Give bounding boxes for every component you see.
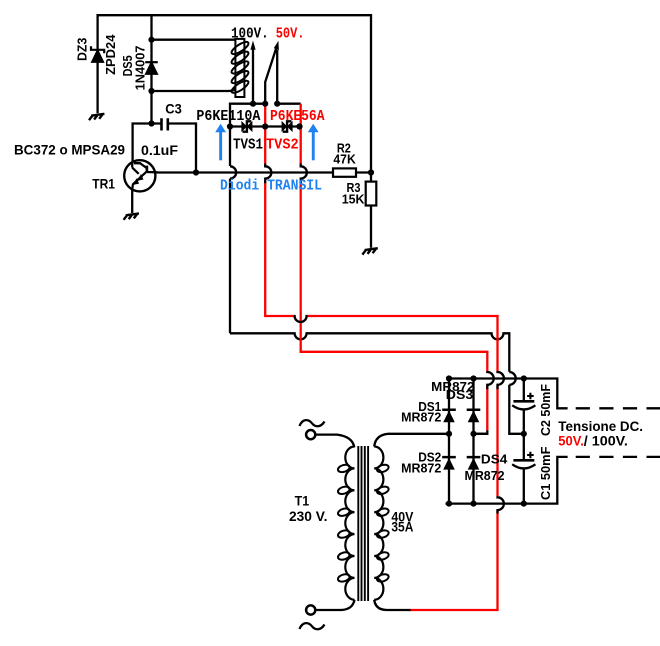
diode DS5 symbol [145, 62, 158, 74]
wire relay coil top lead [152, 39, 236, 41]
wire output minus dashed [576, 456, 660, 458]
wire hop black on red y316 at x300 [294, 316, 308, 322]
wire DS5 vertical [150, 15, 152, 123]
junction DS5 top / coil lead [148, 37, 154, 43]
junction DS3-DS4 mid node [470, 431, 476, 437]
svg-text:DS3: DS3 [446, 387, 473, 402]
blue arrow left [215, 124, 226, 161]
svg-text:MR872: MR872 [465, 468, 505, 483]
svg-text:ZPD24: ZPD24 [103, 34, 118, 75]
svg-text:TVS2: TVS2 [266, 136, 299, 153]
wire red from relay arm down [265, 104, 294, 316]
svg-text:MR872: MR872 [401, 461, 441, 476]
wire relay contact segment B [277, 103, 301, 105]
TVS2 symbol [282, 121, 293, 132]
wire secondary top lead [374, 434, 388, 447]
resistor R3 [366, 182, 377, 206]
wire red from 50V contact down [301, 104, 488, 431]
svg-text:47K: 47K [333, 151, 356, 166]
wire hop black x487 over rail378 [487, 371, 493, 389]
junction DS5 / C3 wire [148, 120, 154, 126]
wire TVS horizontal [230, 125, 301, 127]
core lines [358, 446, 368, 601]
wire relay coil bottom lead [152, 89, 236, 91]
junction C1-C2 mid node [521, 431, 527, 437]
svg-text:TVS1: TVS1 [233, 136, 263, 153]
junction R2 / R3 node [368, 169, 374, 175]
wire top rail with DZ3 branch and right branch to R2/R3 [98, 15, 371, 181]
svg-text:DS4: DS4 [481, 452, 508, 467]
wire black horizontal mid (to bridge cap mid node) [230, 333, 524, 434]
diodes of bridge [442, 409, 480, 470]
diode DS2 [442, 456, 456, 470]
svg-text:C1 50mF: C1 50mF [538, 447, 553, 500]
zener diode DZ3 symbol [91, 46, 104, 62]
svg-text:C2 50mF: C2 50mF [538, 384, 553, 436]
relay contact 100V line [252, 48, 254, 104]
wire top rail of bridge to output [449, 379, 568, 409]
resistor R2 [333, 168, 356, 176]
svg-text:BC372 o MPSA29: BC372 o MPSA29 [14, 141, 125, 157]
terminal bottom circle [306, 605, 315, 614]
svg-text:35A: 35A [391, 519, 413, 535]
junction TVS wire right [296, 123, 302, 129]
junction DS1-DS2 mid node [446, 431, 452, 437]
svg-text:50V.: 50V. [276, 26, 305, 43]
relay contact 50V line [276, 50, 278, 104]
TVS1 symbol [241, 121, 252, 132]
wire black link red to DS3/DS4 node [474, 430, 488, 434]
svg-text:0.1uF: 0.1uF [141, 142, 178, 158]
junction C1 bottom / minus rail [521, 501, 527, 507]
junction relay arm common [262, 101, 268, 107]
svg-text:15K: 15K [342, 191, 365, 206]
secondary winding [374, 447, 383, 600]
junction 100V contact [250, 101, 256, 107]
relay K1 coil [230, 39, 250, 97]
diode DS1 [442, 409, 456, 423]
capacitor column C2 [523, 379, 525, 504]
wire DS1/DS2 column [448, 379, 450, 504]
capacitor C2 plates [512, 393, 535, 469]
wire red horizontal upper to right [308, 316, 498, 610]
wire secondary bottom lead black part [374, 600, 410, 610]
junction C3 right leg / collector wire [193, 169, 199, 175]
diode DS3 [467, 409, 481, 423]
wire primary bottom lead [316, 600, 355, 610]
junction DS5 bottom / coil lead [148, 88, 154, 94]
transformer T1 [300, 420, 411, 629]
svg-text:P6KE56A: P6KE56A [270, 108, 325, 125]
capacitor C3 plates [162, 118, 168, 130]
svg-text:T1: T1 [295, 493, 310, 509]
junction TVS wire / red arm line [262, 123, 268, 129]
red wires [265, 104, 497, 610]
wire DS3/DS4 mid stub [474, 433, 487, 435]
svg-text:1N4007: 1N4007 [132, 46, 147, 91]
junction DS3 cathode / plus rail [470, 375, 476, 381]
junction 50V contact [274, 101, 280, 107]
relay arm [265, 47, 276, 104]
svg-text:P6KE110A: P6KE110A [196, 108, 260, 125]
svg-text:50V.: 50V. [558, 432, 584, 448]
wire C3 top from DS5 node [133, 124, 196, 173]
svg-text:C3: C3 [165, 101, 182, 117]
terminal top circle [306, 430, 315, 439]
tilde top [300, 420, 325, 426]
wire hop black x497 over rail378 [498, 371, 504, 389]
transistor TR1 [124, 160, 158, 191]
svg-text:Diodi TRANSIL: Diodi TRANSIL [220, 177, 322, 194]
svg-text:MR872: MR872 [401, 409, 441, 424]
black hop bumps on red verticals [265, 164, 504, 514]
junction TVS wire left [227, 123, 233, 129]
wire output plus dashed [576, 407, 660, 409]
plus sign C2 [527, 393, 534, 400]
bridge rectifier and output section [388, 379, 660, 504]
wire hop black x300 over y172 [301, 164, 307, 184]
wire relay contacts top segment A [230, 104, 265, 334]
svg-text:DZ3: DZ3 [74, 38, 89, 61]
svg-text:100V.: 100V. [231, 26, 269, 43]
plus sign C1 [527, 452, 534, 459]
blue arrow right [308, 124, 319, 161]
junction C2 top / plus rail [521, 375, 527, 381]
ground (DZ3) [89, 114, 104, 120]
primary winding [345, 447, 354, 600]
relay contact arrowheads [250, 41, 279, 51]
coil loops [230, 40, 250, 95]
svg-text:TR1: TR1 [92, 176, 115, 192]
junction DS1 cathode / plus rail [446, 375, 452, 381]
junction DS4 anode / minus rail [470, 501, 476, 507]
svg-text:230 V.: 230 V. [289, 508, 328, 524]
wire primary top lead [316, 435, 355, 448]
wire DS3/DS4 column [472, 379, 474, 504]
wire bottom rail of bridge to output [446, 457, 568, 504]
wire TR1 emitter to ground [131, 191, 133, 214]
ground (TR1) [124, 213, 139, 219]
junction DS2 anode / minus rail [446, 501, 452, 507]
wire R3 bottom to ground [370, 206, 372, 248]
svg-text:/ 100V.: / 100V. [584, 432, 628, 448]
wire hop black x265 over y172 [265, 164, 271, 184]
wire collector horizontal to R2 [156, 171, 371, 173]
diode DS4 [467, 456, 481, 470]
wire hop black x497 over rail503 [498, 496, 504, 513]
capacitor C1 plates [513, 459, 534, 462]
ground (R3) [362, 248, 377, 254]
tilde bottom [300, 623, 325, 629]
wire transformer sec top to bridge [388, 433, 449, 435]
